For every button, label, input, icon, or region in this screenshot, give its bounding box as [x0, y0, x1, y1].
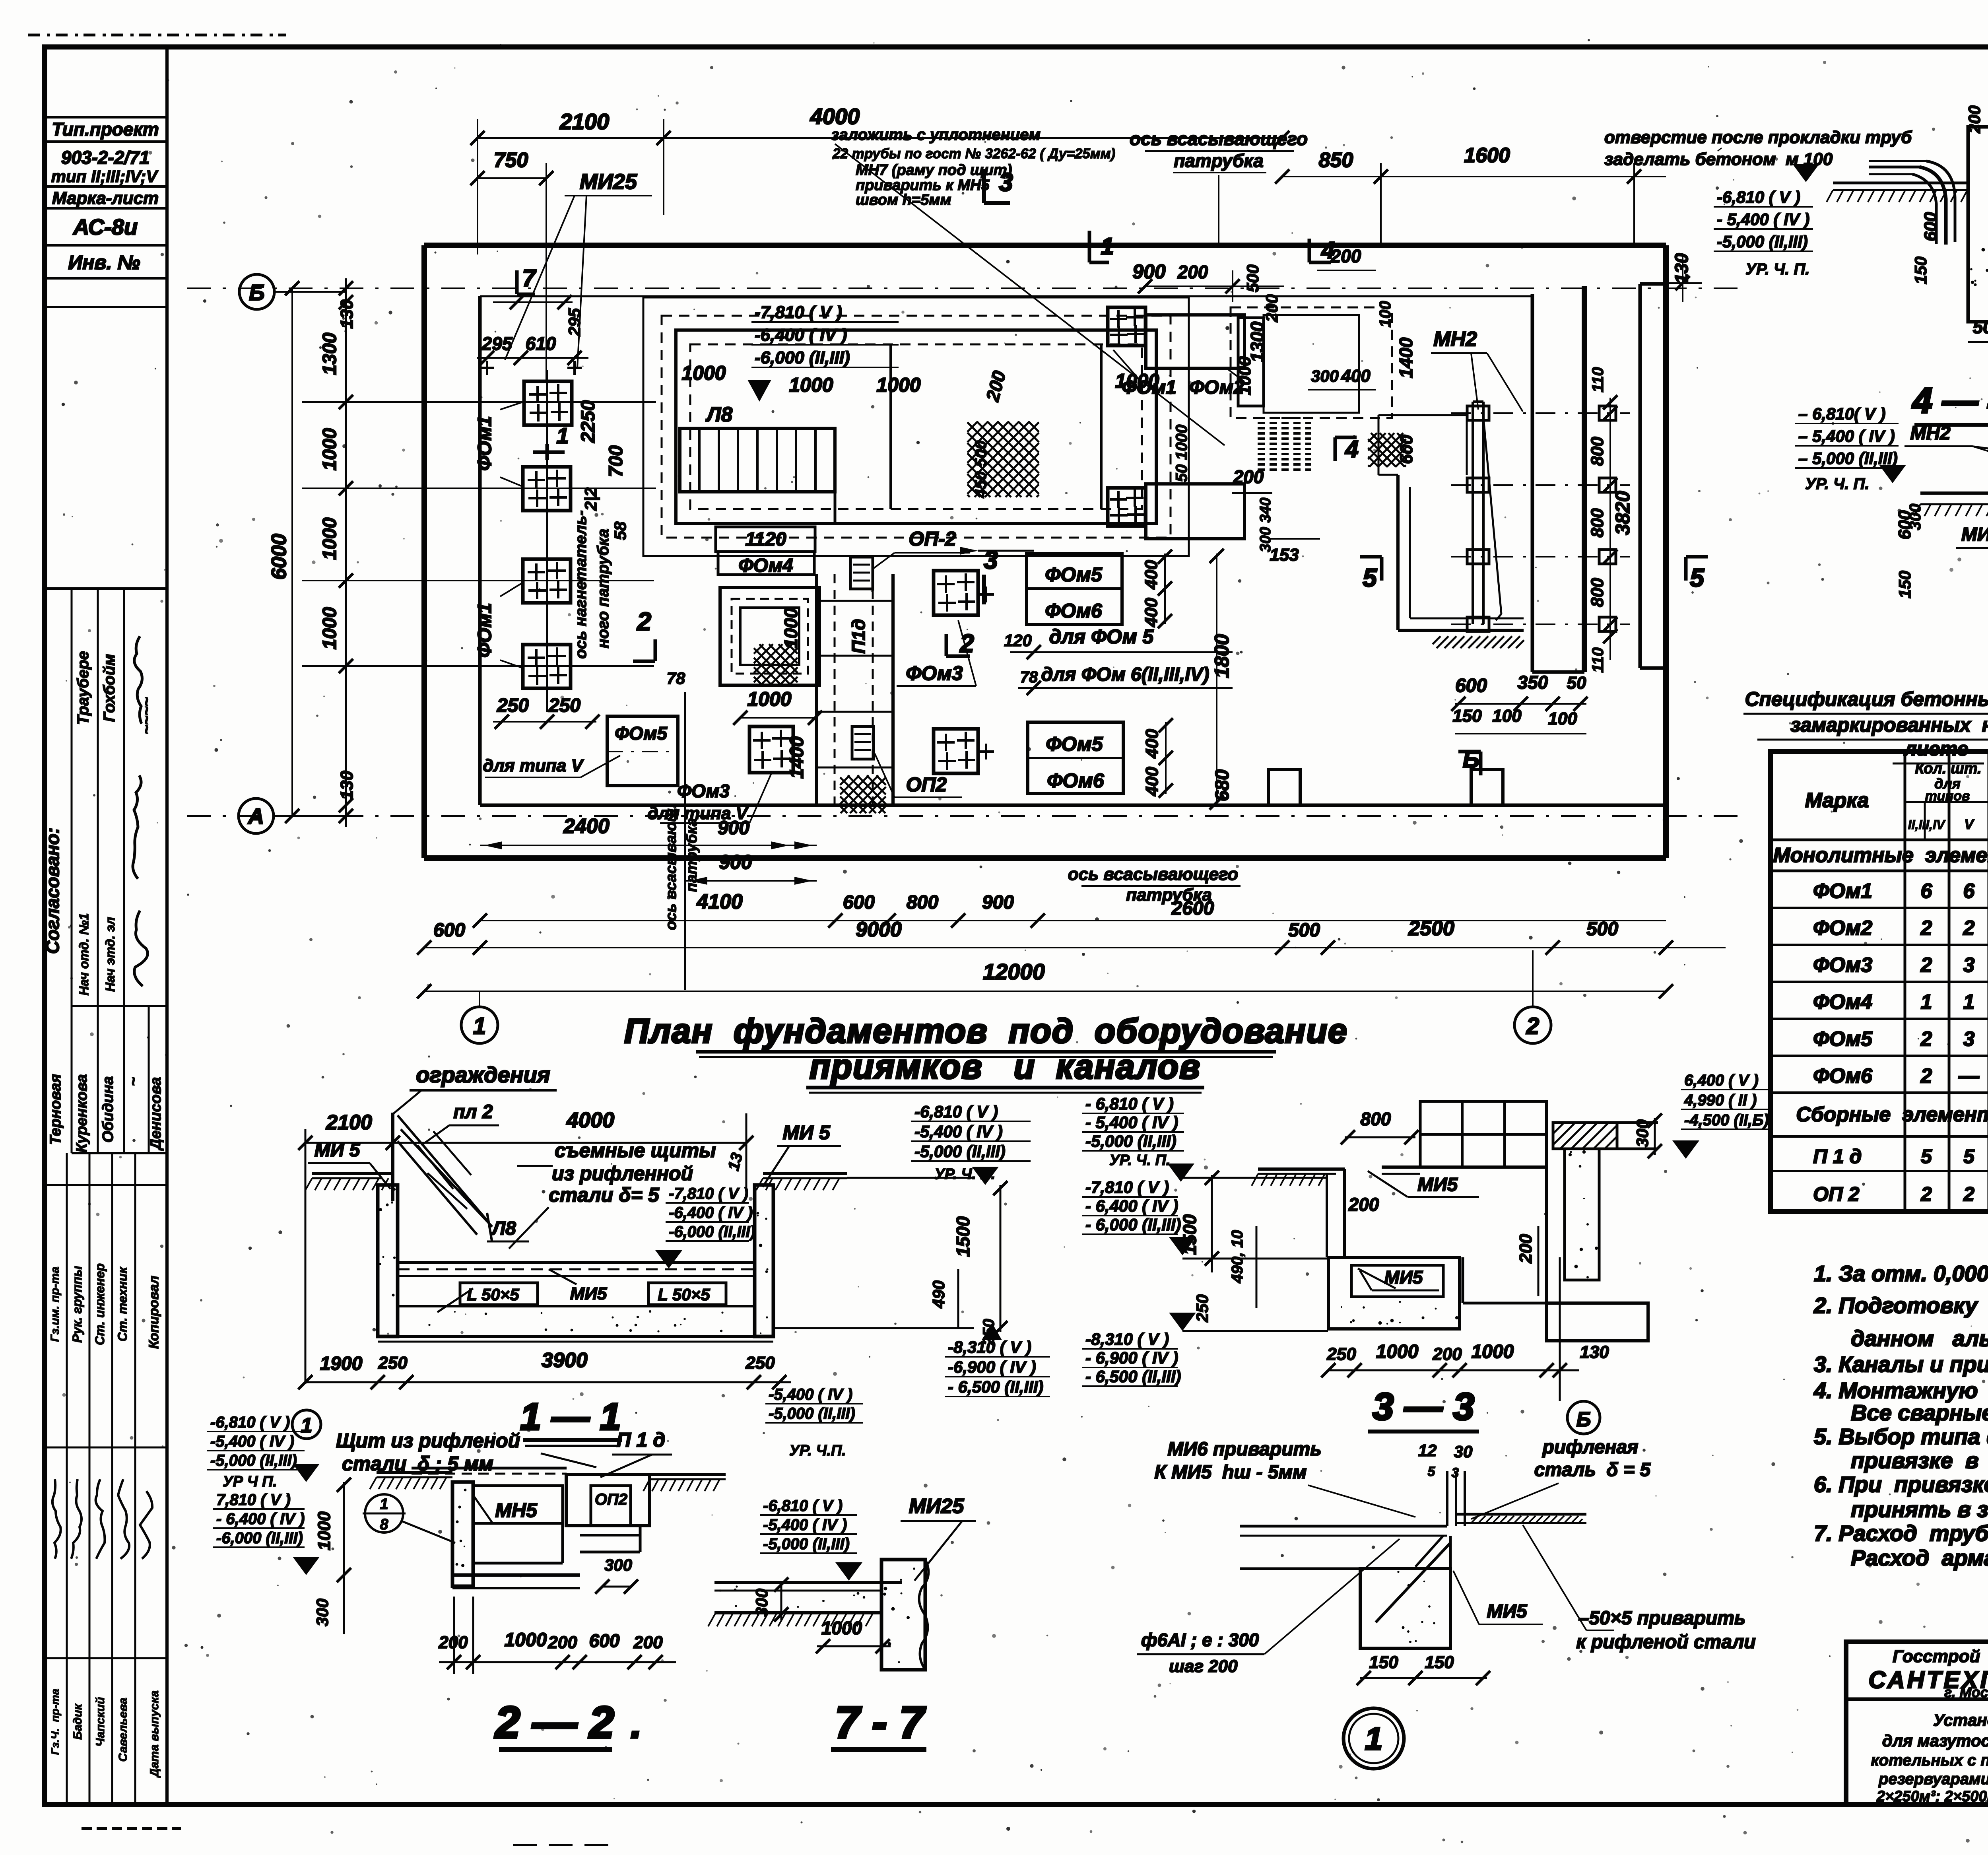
svg-text:2 — 2: 2 — 2: [495, 1698, 614, 1747]
svg-text:-6,810 ( V ): -6,810 ( V ): [763, 1497, 843, 1515]
svg-text:ФОм4: ФОм4: [738, 555, 793, 576]
sec11 MI5 left: [308, 1140, 390, 1189]
svg-text:пл 2: пл 2: [453, 1101, 493, 1123]
title block cell1: [1868, 1645, 1988, 1805]
svg-text:4,990 ( II ): 4,990 ( II ): [1684, 1092, 1757, 1109]
sec33 body: [1252, 1101, 1547, 1329]
svg-text:6000: 6000: [268, 534, 291, 580]
svg-text:Спецификация бетонных и ж.б. э: Спецификация бетонных и ж.б. элементов,: [1745, 688, 1988, 710]
svg-text:1000: 1000: [1472, 1341, 1514, 1362]
left chain labels: [268, 281, 357, 823]
svg-text:1000: 1000: [1376, 1341, 1419, 1362]
svg-text:Марка-лист: Марка-лист: [52, 188, 159, 208]
svg-text:Госстрой: Госстрой: [1893, 1647, 1980, 1666]
svg-text:-6,810 ( V ): -6,810 ( V ): [914, 1102, 998, 1121]
svg-text:МИ5: МИ5: [1417, 1174, 1458, 1195]
sec mark 3 bottom: [984, 546, 998, 604]
strip text: 903-2-2/71: [51, 147, 159, 186]
text os vsasyv top: [1130, 128, 1308, 247]
text otverstie: [1604, 128, 1912, 169]
svg-text:резервуарами 2×100 м³ ;: резервуарами 2×100 м³ ;: [1878, 1770, 1988, 1788]
svg-text:Гз.Ч. пр-та: Гз.Ч. пр-та: [49, 1689, 61, 1755]
table1 header text: [1805, 760, 1988, 832]
svg-text:для мазутоснабжения: для мазутоснабжения: [1882, 1731, 1988, 1750]
svg-text:130: 130: [337, 299, 357, 329]
bottom dim row2: [473, 864, 1666, 928]
svg-text:1: 1: [556, 423, 569, 448]
top dim 2100-4000: [470, 104, 1289, 254]
svg-text:швом h=5мм: швом h=5мм: [856, 192, 951, 208]
plan left wall: [424, 245, 480, 858]
svg-text:МИ25: МИ25: [909, 1495, 965, 1518]
sec mark 2 upper: [946, 629, 974, 658]
svg-text:12000: 12000: [983, 959, 1045, 984]
notes text: [1813, 1261, 1988, 1570]
MI25 label: [505, 170, 652, 368]
sec33 elev2: [1082, 1178, 1196, 1255]
svg-text:Траубере: Траубере: [74, 651, 92, 725]
sec11 L8: [487, 1218, 529, 1241]
svg-text:4000: 4000: [566, 1108, 614, 1132]
svg-text:ФОм5: ФОм5: [615, 723, 668, 744]
svg-text:150: 150: [1369, 1653, 1398, 1672]
svg-text:200: 200: [547, 1633, 577, 1652]
svg-text:ФОм4: ФОм4: [1813, 991, 1872, 1014]
svg-text:Ст. техник: Ст. техник: [115, 1266, 130, 1342]
svg-text:ного патрубка: ного патрубка: [594, 529, 612, 649]
svg-text:ось всасывающ.: ось всасывающ.: [663, 804, 679, 930]
svg-text:130: 130: [1671, 253, 1692, 284]
svg-text:ФОм1: ФОм1: [1813, 880, 1872, 903]
svg-text:ФОм1: ФОм1: [474, 416, 495, 471]
svg-text:Тип.проект: Тип.проект: [52, 119, 159, 140]
FOm3 square bottom: [647, 726, 793, 823]
strip soglasovano block: [42, 589, 167, 1153]
svg-text:МИ 5: МИ 5: [315, 1140, 361, 1161]
sec33 elev3: [1082, 1313, 1196, 1386]
paper edge artifacts: [28, 35, 620, 1845]
dim 3820 chain: [1588, 367, 1654, 673]
plan pit inner divider lines: [835, 344, 1101, 523]
svg-text:600: 600: [589, 1630, 620, 1651]
svg-text:УР. Ч.П.: УР. Ч.П.: [789, 1442, 846, 1459]
svg-text:ФОм3: ФОм3: [1813, 954, 1872, 977]
sec11 elev right: [773, 1102, 1050, 1397]
svg-text:6: 6: [1963, 880, 1975, 903]
hatch blob center: [840, 775, 886, 813]
svg-text:МН2: МН2: [1433, 328, 1477, 351]
svg-text:1: 1: [473, 1013, 486, 1039]
svg-text:5: 5: [1363, 563, 1377, 592]
svg-text:1500: 1500: [953, 1216, 973, 1257]
svg-text:1000: 1000: [315, 1511, 334, 1550]
detail texts: [1154, 1437, 1651, 1519]
foundation FOm1 sq4: [523, 645, 571, 688]
axis circle B: [239, 274, 346, 309]
plan axis line B: [187, 287, 1749, 289]
sec mark 1 right: [1089, 231, 1114, 262]
svg-text:– 5,400 ( IV ): – 5,400 ( IV ): [1798, 427, 1895, 445]
sec44 pier: [1827, 127, 1988, 322]
sec33 bottom dims: [1321, 1257, 1609, 1384]
svg-text:ограждения: ограждения: [416, 1062, 550, 1087]
svg-text:МИ6 приварить: МИ6 приварить: [1167, 1439, 1321, 1460]
dim 130 topright: [1666, 253, 1702, 302]
svg-text:Б: Б: [1463, 746, 1479, 773]
sec44 dims: [1911, 105, 1988, 342]
FOm5-FOm6 lower boxes: [1028, 722, 1123, 794]
svg-text:- 6,000 (II,III): - 6,000 (II,III): [1085, 1215, 1181, 1234]
svg-text:300: 300: [752, 1589, 771, 1616]
svg-text:1000: 1000: [789, 374, 833, 396]
svg-text:МИ5: МИ5: [1487, 1601, 1528, 1622]
axis circle A: [239, 798, 346, 833]
svg-text:-7,810 ( V ): -7,810 ( V ): [669, 1185, 748, 1202]
strip text: marka-list: [52, 188, 159, 208]
sec77 MI25 label: [901, 1495, 976, 1581]
svg-text:1: 1: [1101, 233, 1114, 260]
svg-text:7. Расход труб Ду : 25 мм: 7. Расход труб Ду : 25 мм – 54,0 кг.: [1814, 1521, 1988, 1546]
svg-text:ФОм1: ФОм1: [1122, 377, 1176, 398]
svg-text:-4,500 (II,Б): -4,500 (II,Б): [1684, 1111, 1769, 1129]
svg-text:Сборные элементы: Сборные элементы: [1796, 1103, 1988, 1126]
secBB slab: [1914, 493, 1988, 585]
svg-text:3: 3: [984, 546, 998, 574]
svg-text:Копировал: Копировал: [146, 1276, 161, 1349]
svg-text:типов: типов: [1925, 789, 1970, 804]
svg-text:2: 2: [1963, 917, 1975, 940]
svg-text:ФОм6: ФОм6: [1045, 600, 1103, 622]
foundation FOm1 sq1: [524, 381, 572, 425]
svg-text:Терновая: Терновая: [47, 1074, 64, 1145]
rotated dims 2250 700: [578, 400, 629, 540]
svg-text:-6,810 ( V ): -6,810 ( V ): [210, 1414, 290, 1431]
svg-text:листе: листе: [1903, 738, 1968, 760]
detail axis circle: [1343, 1708, 1404, 1769]
svg-text:Куренкова: Куренкова: [74, 1074, 90, 1152]
strip text: tip.proekt: [52, 119, 159, 140]
svg-text:1000: 1000: [319, 607, 340, 649]
sec22 body: [370, 1468, 726, 1588]
svg-text:ось всасывающего: ось всасывающего: [1068, 864, 1238, 884]
axis circle 2: [1514, 950, 1551, 1043]
svg-text:800: 800: [1588, 508, 1607, 538]
svg-text:200: 200: [1262, 294, 1281, 322]
svg-text:- 5,400 ( IV ): - 5,400 ( IV ): [1085, 1113, 1178, 1132]
svg-text:2: 2: [1963, 1183, 1974, 1205]
svg-text:Согласовано:: Согласовано:: [42, 827, 63, 954]
svg-text:-8,310 ( V ): -8,310 ( V ): [948, 1338, 1031, 1356]
svg-text:5: 5: [1428, 1464, 1436, 1479]
svg-text:из рифленной: из рифленной: [552, 1162, 693, 1185]
svg-text:200: 200: [1348, 1194, 1379, 1215]
svg-text:100: 100: [1492, 706, 1522, 726]
svg-text:-6,400 ( IV ): -6,400 ( IV ): [669, 1204, 753, 1222]
foundation FOm1 sq2: [523, 467, 571, 511]
bottom dim row4: [417, 959, 1673, 998]
svg-text:300 340: 300 340: [1257, 497, 1274, 552]
svg-text:250: 250: [548, 695, 580, 716]
svg-text:- 6,500 (II,III): - 6,500 (II,III): [948, 1377, 1043, 1396]
svg-text:1: 1: [301, 1414, 313, 1437]
svg-text:2100: 2100: [559, 109, 610, 134]
sec22 elev left: [207, 1414, 320, 1575]
svg-text:для ФОм 5: для ФОм 5: [1049, 625, 1154, 648]
svg-text:Гохбойм: Гохбойм: [101, 654, 118, 722]
plan wall pillar 1: [1268, 769, 1503, 805]
svg-text:АС-8и: АС-8и: [72, 214, 138, 239]
svg-text:Монолитные элементы: Монолитные элементы: [1773, 844, 1988, 867]
svg-text:МН7 (раму под щит): МН7 (раму под щит): [856, 162, 1012, 179]
svg-text:200: 200: [633, 1633, 663, 1652]
sec77 body: [708, 1560, 928, 1670]
svg-text:ФОм2: ФОм2: [1813, 917, 1872, 940]
svg-text:4100: 4100: [696, 890, 743, 913]
svg-text:2×250м³; 2×500м³; 2×1000м³: 2×250м³; 2×500м³; 2×1000м³: [1876, 1788, 1988, 1805]
text zalozhit: [831, 126, 1225, 445]
svg-text:-6,400 ( IV ): -6,400 ( IV ): [755, 325, 847, 345]
svg-text:К МИ5 hш - 5мм: К МИ5 hш - 5мм: [1154, 1462, 1307, 1483]
svg-text:-6,810 ( V ): -6,810 ( V ): [1717, 188, 1800, 206]
sec22 vdims: [313, 1478, 351, 1634]
svg-text:1400: 1400: [1396, 337, 1416, 378]
svg-text:Обидина: Обидина: [100, 1076, 116, 1142]
left horiz ext lines: [302, 402, 656, 666]
plan right outer wall: [1663, 245, 1669, 858]
svg-text:-6,000 (II,III): -6,000 (II,III): [216, 1529, 303, 1547]
dim 1000 below pit: [733, 688, 822, 725]
svg-text:-5,000 (II,III): -5,000 (II,III): [763, 1535, 850, 1553]
svg-text:–50×5 приварить: –50×5 приварить: [1578, 1608, 1746, 1629]
svg-text:7: 7: [522, 265, 536, 291]
svg-text:500: 500: [1243, 264, 1262, 292]
svg-text:300: 300: [1633, 1119, 1652, 1147]
svg-text:6,400 ( V ): 6,400 ( V ): [1684, 1072, 1759, 1089]
svg-text:1000: 1000: [319, 517, 340, 560]
svg-text:-5,400 ( IV ): -5,400 ( IV ): [769, 1386, 852, 1403]
svg-text:- 5,400 ( IV ): - 5,400 ( IV ): [1717, 210, 1809, 229]
plan bottom wall: [424, 805, 1666, 858]
svg-text:2600: 2600: [1171, 898, 1214, 919]
sec77 elev: [760, 1386, 863, 1581]
sec11 top dims: [298, 1108, 753, 1384]
table1 grid: [1771, 752, 1988, 1212]
svg-text:8: 8: [380, 1516, 388, 1533]
secBB elev stack: [1795, 404, 1906, 493]
svg-text:отверстие после прокладки труб: отверстие после прокладки труб: [1604, 128, 1912, 147]
svg-text:600: 600: [843, 892, 875, 913]
svg-text:Ст. инженер: Ст. инженер: [93, 1263, 107, 1345]
svg-text:3820: 3820: [1611, 491, 1634, 535]
plan main title: [624, 1012, 1348, 1093]
svg-text:250: 250: [378, 1353, 408, 1373]
svg-text:2|2: 2|2: [581, 488, 600, 511]
MI1 label BB: [1956, 517, 1988, 548]
bottom dim row3: [417, 917, 1726, 955]
svg-text:V: V: [1964, 816, 1975, 832]
FOm5 big box left: [483, 716, 678, 786]
svg-text:L 50×5: L 50×5: [658, 1285, 710, 1304]
svg-text:-5,000 (II,III): -5,000 (II,III): [769, 1405, 855, 1422]
svg-text:ФОм5: ФОм5: [1046, 733, 1103, 755]
FOm5-FOm6 upper boxes: [1027, 554, 1122, 624]
svg-text:1: 1: [1921, 991, 1932, 1014]
top dim 850-1600: [1275, 144, 1666, 245]
left dim chain vline: [339, 278, 353, 827]
detail body: [1240, 1471, 1586, 1648]
svg-text:-8,310 ( V ): -8,310 ( V ): [1085, 1330, 1169, 1348]
svg-text:100: 100: [1376, 301, 1394, 328]
svg-text:~: ~: [125, 1077, 142, 1086]
svg-text:ФОм3: ФОм3: [906, 662, 963, 684]
svg-text:МН5: МН5: [495, 1499, 538, 1521]
svg-text:МН2: МН2: [1910, 423, 1951, 444]
svg-text:ФОм6: ФОм6: [1813, 1064, 1873, 1088]
plan pit crosshatch: [967, 422, 1039, 497]
sec11 pit body: [305, 1173, 847, 1342]
svg-text:610: 610: [526, 333, 556, 354]
svg-text:5: 5: [1963, 1145, 1975, 1167]
sec33 right part: [1547, 1072, 1773, 1341]
table1 band2: [1796, 1103, 1988, 1126]
svg-text:5: 5: [1921, 1145, 1932, 1167]
svg-text:- 6,500 (II,III): - 6,500 (II,III): [1085, 1367, 1181, 1386]
svg-text:ось всасывающего: ось всасывающего: [1130, 128, 1308, 149]
svg-text:П 1 д: П 1 д: [1813, 1145, 1862, 1167]
svg-text:300: 300: [313, 1599, 332, 1626]
svg-text:заложить с уплотнением: заложить с уплотнением: [831, 126, 1041, 144]
svg-text:2: 2: [1920, 1028, 1932, 1051]
right complex dims: [1232, 246, 1416, 493]
svg-text:ФОм5: ФОм5: [1045, 563, 1103, 586]
right nested pit: [1231, 307, 1392, 418]
FOm1 axis vline: [546, 370, 548, 712]
svg-text:-5,400 ( IV ): -5,400 ( IV ): [210, 1433, 294, 1450]
svg-text:2: 2: [1920, 1183, 1932, 1205]
svg-text:2250: 2250: [578, 400, 599, 443]
svg-text:900: 900: [718, 818, 749, 839]
svg-text:ось нагнетатель-: ось нагнетатель-: [572, 510, 590, 658]
svg-text:58: 58: [611, 521, 629, 540]
svg-text:6: 6: [1921, 880, 1933, 903]
svg-text:сталь δ = 5: сталь δ = 5: [1534, 1459, 1651, 1480]
plan top wall: [424, 245, 1666, 296]
svg-text:130: 130: [337, 771, 357, 800]
svg-text:г. Москва: г. Москва: [1944, 1684, 1988, 1700]
svg-text:1000: 1000: [821, 1618, 862, 1638]
dims 1800 680 rot: [1209, 549, 1233, 810]
plan pit dim texts: [681, 362, 1190, 498]
svg-text:Бадик: Бадик: [71, 1703, 84, 1740]
svg-text:МИ25: МИ25: [580, 170, 637, 194]
svg-text:– 5,000 (II,III): – 5,000 (II,III): [1798, 449, 1898, 468]
svg-text:-7,810 ( V ): -7,810 ( V ): [1085, 1178, 1169, 1197]
svg-text:400: 400: [1142, 560, 1161, 590]
svg-text:150: 150: [1425, 1653, 1454, 1672]
svg-text:450 500: 450 500: [972, 441, 990, 499]
svg-text:750: 750: [494, 149, 528, 172]
sec11 axis circle: [292, 1410, 321, 1439]
svg-text:Савельева: Савельева: [116, 1698, 130, 1762]
plan ladder L8: [680, 403, 835, 492]
svg-text:.: .: [631, 1702, 642, 1746]
svg-text:-5,400 ( IV ): -5,400 ( IV ): [914, 1122, 1003, 1141]
svg-text:150: 150: [1911, 256, 1930, 284]
svg-text:5: 5: [1690, 563, 1705, 592]
svg-text:ФОм1: ФОм1: [474, 603, 495, 658]
svg-text:22 трубы по гост № 3262-62 ( Д: 22 трубы по гост № 3262-62 ( Ду=25мм): [832, 146, 1115, 161]
svg-text:1: 1: [1963, 991, 1975, 1014]
FOm1 plus-squares right: [1108, 307, 1145, 526]
svg-text:250: 250: [1193, 1294, 1211, 1323]
svg-text:- 6,400 ( IV ): - 6,400 ( IV ): [1085, 1197, 1178, 1215]
sec mark 4 mid: [1335, 436, 1359, 462]
svg-text:2400: 2400: [563, 815, 610, 838]
axis dash through clamps: [1451, 413, 1630, 624]
svg-text:МИ 5: МИ 5: [782, 1121, 831, 1144]
svg-text:300: 300: [604, 1556, 632, 1574]
sec11 fence: [393, 1101, 499, 1241]
svg-text:2: 2: [1920, 917, 1932, 940]
strip text: inv-no: [68, 251, 140, 274]
svg-text:110: 110: [1589, 367, 1607, 392]
axis circle 1: [461, 991, 498, 1043]
svg-text:100: 100: [1548, 709, 1577, 728]
svg-text:привязке в зависимости от: привязке в зависимости от технологии .: [1851, 1448, 1988, 1473]
svg-text:ОП 2: ОП 2: [1813, 1183, 1860, 1205]
svg-text:L 50×5: L 50×5: [467, 1285, 519, 1304]
svg-text:3 — 3: 3 — 3: [1373, 1385, 1474, 1428]
svg-text:110: 110: [1589, 647, 1607, 673]
svg-text:2: 2: [1526, 1013, 1539, 1039]
sec11 title: [520, 1396, 622, 1446]
svg-text:Установка: Установка: [1933, 1711, 1988, 1729]
svg-text:800: 800: [1361, 1109, 1391, 1129]
svg-text:1500: 1500: [1179, 1214, 1200, 1255]
svg-text:Б: Б: [1576, 1408, 1591, 1431]
svg-text:МИ5: МИ5: [570, 1284, 607, 1303]
svg-text:4. Монтажную сварку производ: 4. Монтажную сварку производить электрод…: [1813, 1378, 1988, 1403]
svg-text:3: 3: [1963, 1028, 1975, 1051]
sec mark 4 small: [1309, 237, 1335, 264]
FOm3 squares col2: [934, 571, 994, 773]
svg-text:—: —: [1958, 1064, 1980, 1088]
svg-text:200: 200: [1330, 246, 1361, 266]
sec11 elev mid: [655, 1185, 755, 1268]
svg-text:-6,900 ( IV ): -6,900 ( IV ): [948, 1358, 1036, 1376]
svg-text:Чапский: Чапский: [94, 1697, 107, 1747]
P1d channel: [817, 574, 893, 805]
svg-text:Л8: Л8: [491, 1218, 516, 1239]
svg-text:700: 700: [606, 445, 627, 477]
svg-text:500: 500: [1973, 317, 1988, 337]
svg-text:1000: 1000: [505, 1630, 547, 1651]
svg-text:1600: 1600: [1464, 144, 1510, 167]
sec33 axis circle: [1560, 1384, 1600, 1434]
right inner wall lines: [1532, 286, 1584, 672]
svg-text:Рук. группы: Рук. группы: [70, 1266, 84, 1342]
svg-text:4 — 4: 4 — 4: [1912, 381, 1988, 421]
svg-text:7,810 ( V ): 7,810 ( V ): [216, 1491, 291, 1509]
sec22 title: [495, 1698, 642, 1750]
svg-text:- 6,400 ( IV ): - 6,400 ( IV ): [216, 1510, 305, 1528]
svg-text:-5,000 (II,III): -5,000 (II,III): [914, 1142, 1006, 1161]
svg-text:9000: 9000: [856, 918, 902, 941]
sec44 title: [1912, 381, 1988, 425]
svg-text:Расход арматуры ф6АI – 8,: Расход арматуры ф6АI – 8,0 кг.: [1851, 1545, 1988, 1570]
svg-text:400: 400: [1142, 767, 1162, 796]
svg-text:6. При привязке количества: 6. При привязке количества фундаментов п…: [1814, 1472, 1988, 1497]
